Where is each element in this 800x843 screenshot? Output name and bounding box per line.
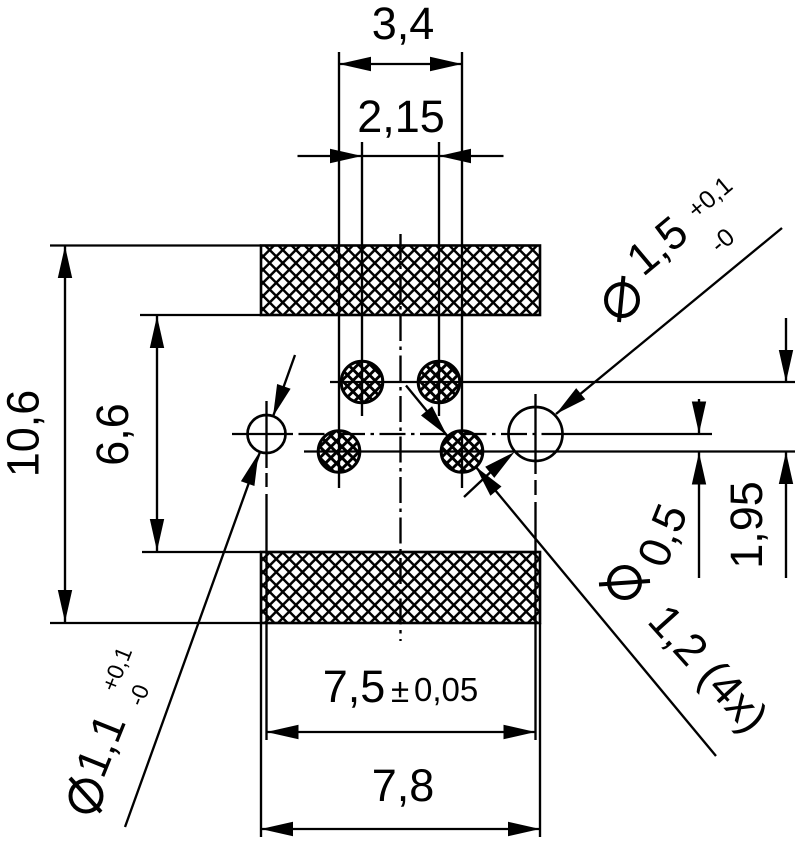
bottom rect bottom edge extension left (50, 622, 261, 624)
leader line dia 1,2 (476, 467, 717, 757)
dimension line 7,8 (261, 828, 540, 830)
hatched hole dia 1,2 upper-right (418, 361, 460, 403)
svg-text:3,4: 3,4 (372, 0, 435, 49)
svg-text:10,6: 10,6 (0, 390, 49, 478)
dimension line 10,6 (64, 246, 66, 622)
svg-text:7,8: 7,8 (372, 760, 435, 811)
svg-text:1,95: 1,95 (721, 481, 772, 569)
svg-text:2,15: 2,15 (357, 91, 445, 142)
top rect top edge extension left (50, 244, 261, 246)
top rect bottom edge extension left (140, 314, 261, 316)
hole dia 1,5 right (509, 407, 563, 461)
label 1,1 (65, 707, 136, 784)
solid extension of center row to 0,5 dimension (562, 433, 712, 435)
extension line x=362 (2,15 left / upper-left hole axis) (361, 142, 363, 416)
diameter symbol for 1,1 (71, 781, 102, 812)
hatched hole dia 1,2 lower-right (441, 431, 483, 473)
svg-text:±: ± (391, 672, 409, 709)
upper hole row line (330, 381, 795, 383)
rect left edge extension down to 7,8 (260, 623, 262, 837)
leader line dia 1,1 (125, 452, 260, 827)
label 1,2 (4x) rotated (639, 595, 779, 743)
label tolerance +0,1 of dia 1,1 (96, 643, 137, 695)
leader line dia 1,5 (556, 228, 782, 414)
dimension line 7,5 (267, 731, 536, 733)
diameter symbol shared (609, 567, 640, 598)
lower hole row line (304, 450, 795, 452)
dimension line 3,4 (339, 63, 462, 65)
hatched hole dia 1,2 lower-left (318, 431, 360, 473)
top hatched mounting-plate section (261, 246, 540, 316)
dimension line 1,95 (785, 318, 787, 382)
svg-text:0,05: 0,05 (414, 671, 478, 708)
svg-text:6,6: 6,6 (87, 403, 138, 466)
vertical dash-dot centerline (399, 234, 401, 641)
extension line x=439 (2,15 right / upper-right hole axis) (438, 142, 440, 416)
bottom hatched mounting-plate section (261, 552, 540, 623)
hatched hole dia 1,2 upper-left (341, 361, 383, 403)
extension line x=462 (3,4 right / lower-right hole axis) (461, 52, 463, 488)
extension line x=339 (3,4 left / lower-left hole axis) (338, 52, 340, 488)
label 1,5 with tolerance (617, 164, 765, 306)
svg-text:7,5: 7,5 (323, 661, 386, 712)
rect right edge extension down to 7,8 (539, 623, 541, 837)
label 0,5 rotated (627, 497, 698, 574)
dimension line 0,5 (698, 399, 700, 434)
left hole axis extension down to 7,5 (265, 401, 267, 468)
label tolerance -0 of dia 1,1 (123, 681, 155, 710)
bottom rect top edge extension left (142, 551, 261, 553)
dimension line 2,15 (298, 155, 504, 157)
right hole axis extension down to 7,5 (534, 394, 536, 474)
dimension line 6,6 (156, 316, 158, 551)
horizontal dash-dot centerline through big holes (232, 433, 293, 435)
hole dia 1,1 left (248, 415, 286, 453)
diameter symbol for 1,5 (606, 284, 638, 316)
